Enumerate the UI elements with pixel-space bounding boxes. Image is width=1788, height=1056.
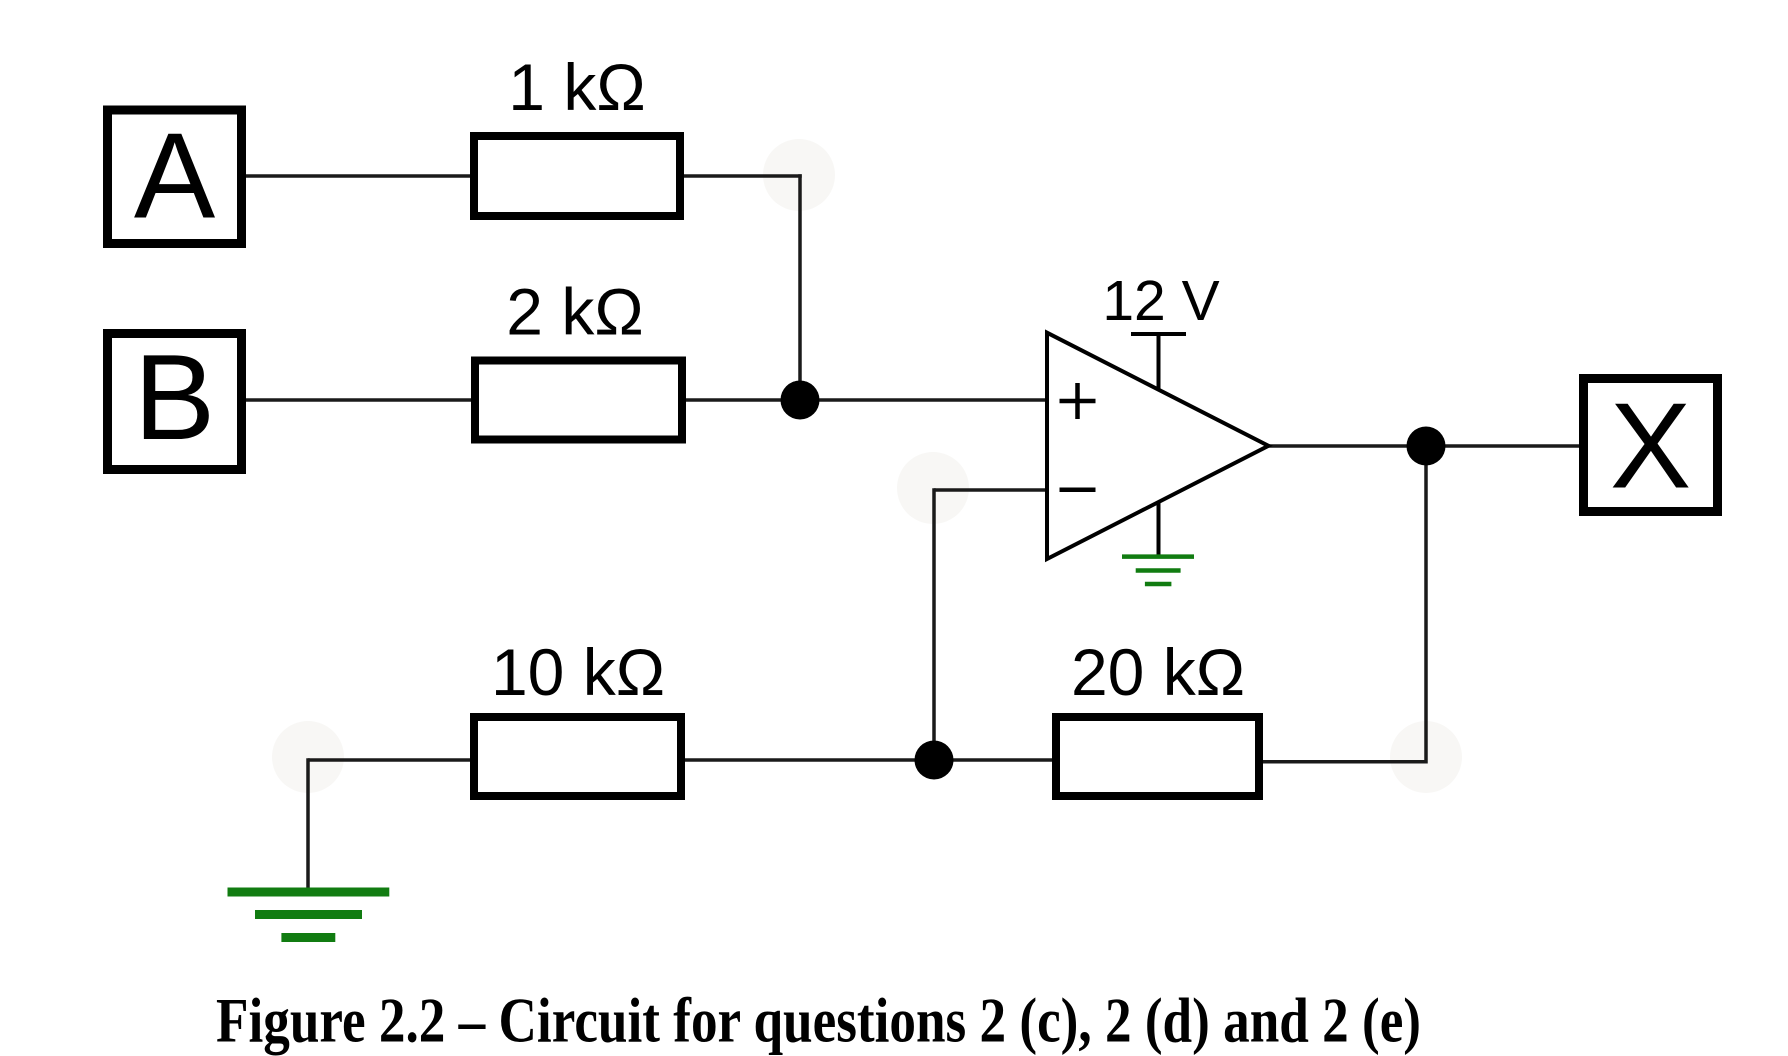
- svg-text:12 V: 12 V: [1102, 269, 1219, 333]
- svg-text:2 kΩ: 2 kΩ: [506, 275, 643, 349]
- svg-text:X: X: [1610, 378, 1691, 514]
- svg-text:B: B: [134, 329, 215, 465]
- svg-text:A: A: [134, 108, 216, 244]
- svg-text:1 kΩ: 1 kΩ: [508, 50, 645, 124]
- svg-text:10 kΩ: 10 kΩ: [491, 635, 665, 709]
- svg-text:20 kΩ: 20 kΩ: [1071, 635, 1245, 709]
- svg-text:Figure 2.2 – Circuit for quest: Figure 2.2 – Circuit for questions 2 (c)…: [216, 986, 1421, 1056]
